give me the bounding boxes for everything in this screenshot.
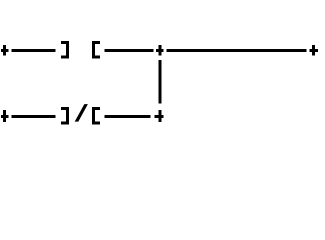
node A: junction + on rung 1 (branch tie point) [156,45,163,56]
node: left rail tap of rung 1 (+) [1,45,9,56]
node: left rail tap of rung 2 (+) [1,110,9,122]
contact X2 left bracket ] (normally-closed contact, left half) [61,107,69,124]
wire: vertical branch between node A and node B [159,60,162,104]
contact X1 right bracket [ (normally-open contact, right half) [92,41,100,58]
wire: rung 2 segment from contact X2 to node B [105,115,151,118]
contact X1 left bracket ] (normally-open contact, left half) [61,41,69,58]
wire: rung 1 segment from contact X1 to junction node A [105,49,154,52]
contact X2 right bracket [ (normally-closed contact, right half) [92,107,100,124]
node: right rail tap of rung 1 (+) [309,45,317,56]
contact X2 slash / (normally-closed marker) [75,104,88,122]
node B: junction + terminating rung 2 into the branch [154,110,163,122]
wire: rung 2 segment from left rail to contact X2 [12,115,56,118]
wire: rung 1 segment from left rail to contact X1 [12,49,56,52]
wire: rung 1 segment from node A to right rail [166,49,306,52]
